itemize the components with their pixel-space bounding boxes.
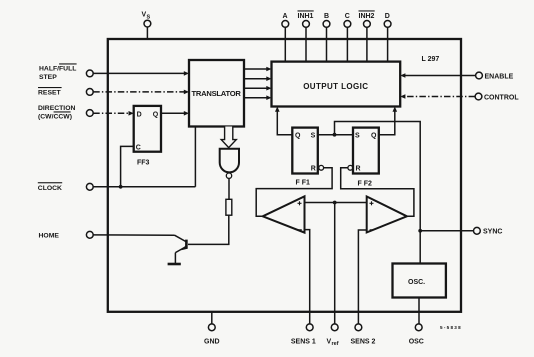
bus arrow translator to NAND (hollow) bbox=[221, 127, 236, 148]
wire FF3 Q to translator bbox=[161, 112, 186, 114]
flip-flop FF2 bbox=[353, 128, 379, 174]
wire clock junction up to FF3 C bbox=[121, 146, 134, 186]
wire DIRECTION to FF3 D (dash-dot) bbox=[93, 112, 130, 114]
terminal SENS 1 bbox=[306, 324, 313, 331]
wire A to output logic bbox=[284, 27, 286, 61]
terminal SYNC bbox=[474, 227, 481, 234]
svg-text:(CW/CCW): (CW/CCW) bbox=[38, 114, 72, 121]
transistor emitter lead with arrow bbox=[175, 246, 186, 252]
wire translator to output-logic bus 1 bbox=[244, 68, 268, 70]
svg-text:F F1: F F1 bbox=[296, 179, 310, 186]
terminal OSC bbox=[415, 324, 422, 331]
input HALF/FULL STEP bbox=[39, 63, 77, 80]
svg-text:ENABLE: ENABLE bbox=[485, 73, 514, 80]
svg-text:SYNC: SYNC bbox=[483, 229, 502, 236]
terminal Vref bbox=[331, 324, 338, 331]
wire RESET to translator (dash-dot) bbox=[93, 91, 185, 93]
wire INH2 to output logic bbox=[366, 27, 368, 61]
wire translator to output-logic bus 4 bbox=[244, 97, 268, 99]
svg-text:DIRECTION: DIRECTION bbox=[38, 105, 75, 112]
svg-text:HOME: HOME bbox=[39, 233, 60, 240]
wire FF1 S to FF2 S bbox=[318, 134, 353, 136]
gate NAND (home detector) bbox=[220, 149, 239, 173]
svg-text:S: S bbox=[147, 15, 151, 21]
input CLOCK bbox=[38, 182, 62, 192]
flip-flop FF1 bbox=[292, 128, 318, 174]
wire FF2 Q up to output logic bbox=[379, 110, 395, 135]
comparator 2 (right, output at tip) bbox=[367, 197, 407, 233]
wire SENS1 stub bbox=[309, 312, 311, 324]
wire FF1 R to comparator 1 output bbox=[256, 168, 332, 217]
svg-text:D: D bbox=[385, 13, 390, 20]
wire NAND output to resistor bbox=[228, 178, 230, 199]
wire HALF/FULL STEP to translator bbox=[93, 72, 185, 74]
input DIRECTION (CW/CCW) bbox=[38, 105, 75, 120]
terminal A bbox=[282, 21, 289, 28]
wire S junction to sync node bbox=[335, 122, 421, 231]
svg-text:SENS 2: SENS 2 bbox=[351, 339, 376, 346]
terminal HOME bbox=[86, 231, 93, 238]
wire FF2 R to comparator 2 output bbox=[341, 168, 414, 217]
transistor Q1 (home open-collector) bbox=[185, 240, 188, 249]
svg-text:OSC.: OSC. bbox=[408, 279, 425, 286]
svg-text:A: A bbox=[283, 13, 288, 20]
terminal D bbox=[384, 21, 391, 28]
wire resistor to transistor base bbox=[188, 215, 229, 244]
wire oscillator to OSC terminal bbox=[418, 298, 420, 324]
terminal DIRECTION bbox=[86, 110, 93, 117]
block OUTPUT LOGIC bbox=[272, 62, 401, 107]
node Vref junction bbox=[333, 201, 337, 205]
transistor collector lead bbox=[175, 235, 187, 242]
wire SENS2 stub bbox=[357, 312, 359, 324]
wire comparator2 minus to SENS2 bbox=[358, 230, 366, 312]
node clock junction bbox=[119, 185, 123, 189]
svg-text:ref: ref bbox=[332, 341, 339, 347]
flip-flop FF3 bbox=[134, 106, 161, 152]
svg-text:OUTPUT LOGIC: OUTPUT LOGIC bbox=[303, 82, 368, 91]
svg-text:R: R bbox=[356, 166, 361, 173]
svg-text:SENS 1: SENS 1 bbox=[291, 339, 316, 346]
wire Vs to top border bbox=[146, 27, 148, 39]
terminal GND bbox=[208, 324, 215, 331]
pin FF2 R bubble bbox=[348, 165, 353, 170]
svg-text:R: R bbox=[311, 166, 316, 173]
wire sync node to SYNC terminal bbox=[420, 230, 473, 232]
input RESET bbox=[38, 87, 62, 97]
wire Vref line between comparator + inputs bbox=[305, 202, 367, 204]
svg-text:C: C bbox=[345, 13, 350, 20]
pin FF1 R bubble bbox=[319, 165, 324, 170]
wire Vref stub bbox=[334, 312, 336, 324]
comparator 1 (left, output at tip) bbox=[263, 196, 305, 232]
terminal RESET bbox=[86, 89, 93, 96]
wire CONTROL to output logic (dash-dot) bbox=[404, 96, 475, 98]
wire B to output logic bbox=[326, 27, 328, 61]
svg-text:GND: GND bbox=[204, 339, 220, 346]
wire translator to output-logic bus 2 bbox=[244, 78, 268, 80]
svg-text:RESET: RESET bbox=[38, 90, 62, 97]
svg-text:S: S bbox=[355, 133, 360, 140]
wire D to output logic bbox=[387, 27, 389, 61]
wire C to output logic bbox=[346, 27, 348, 61]
svg-text:C: C bbox=[136, 144, 141, 151]
svg-text:INH1: INH1 bbox=[298, 13, 314, 20]
svg-text:L 297: L 297 bbox=[422, 56, 440, 63]
svg-text:S: S bbox=[311, 133, 316, 140]
terminal INH1 bbox=[303, 21, 310, 28]
svg-text:Q: Q bbox=[371, 133, 377, 140]
svg-text:FF3: FF3 bbox=[137, 160, 150, 167]
svg-text:CLOCK: CLOCK bbox=[38, 185, 62, 192]
wire Vref down to terminal bbox=[334, 203, 336, 312]
resistor base resistor bbox=[226, 199, 232, 215]
wire ENABLE to output logic bbox=[404, 75, 476, 77]
terminal INH2 bbox=[364, 21, 371, 28]
terminal CLOCK bbox=[86, 183, 93, 190]
terminal SENS 2 bbox=[355, 324, 362, 331]
terminal B bbox=[323, 21, 330, 28]
svg-text:STEP: STEP bbox=[39, 74, 57, 81]
terminal Vs bbox=[144, 20, 151, 27]
svg-text:HALF/FULL: HALF/FULL bbox=[39, 66, 76, 73]
wire translator to output-logic bus 3 bbox=[244, 87, 268, 89]
svg-text:TRANSLATOR: TRANSLATOR bbox=[192, 89, 242, 98]
wire translator bottom to clock line bbox=[194, 127, 196, 187]
block OSC oscillator bbox=[393, 264, 446, 298]
wire CLOCK to translator drop line bbox=[93, 186, 195, 188]
terminal HALF/FULL STEP bbox=[86, 70, 93, 77]
wire GND stub bbox=[211, 312, 213, 324]
wire FF1 Q up to output logic bbox=[277, 110, 292, 135]
wire INH1 to output logic bbox=[305, 27, 307, 61]
wire sync node down to oscillator bbox=[419, 231, 421, 264]
wire HOME to transistor collector bbox=[93, 234, 174, 236]
svg-text:5 - 5 8 3 8: 5 - 5 8 3 8 bbox=[440, 325, 461, 330]
ground bbox=[168, 263, 181, 266]
svg-text:OSC: OSC bbox=[409, 339, 424, 346]
node sync junction bbox=[418, 229, 422, 233]
terminal ENABLE bbox=[476, 72, 483, 79]
block TRANSLATOR bbox=[189, 60, 244, 127]
svg-text:CONTROL: CONTROL bbox=[484, 94, 519, 101]
node S junction bbox=[333, 133, 337, 137]
wire comparator1 minus to SENS1 bbox=[305, 230, 310, 312]
terminal CONTROL bbox=[475, 93, 482, 100]
svg-text:D: D bbox=[137, 111, 142, 118]
IC outline box L297 bbox=[108, 39, 461, 312]
terminal C bbox=[344, 21, 351, 28]
svg-text:INH2: INH2 bbox=[359, 13, 375, 20]
svg-text:F F2: F F2 bbox=[358, 180, 372, 187]
svg-text:Q: Q bbox=[153, 111, 159, 118]
svg-text:Q: Q bbox=[295, 133, 301, 140]
svg-text:B: B bbox=[324, 13, 329, 20]
